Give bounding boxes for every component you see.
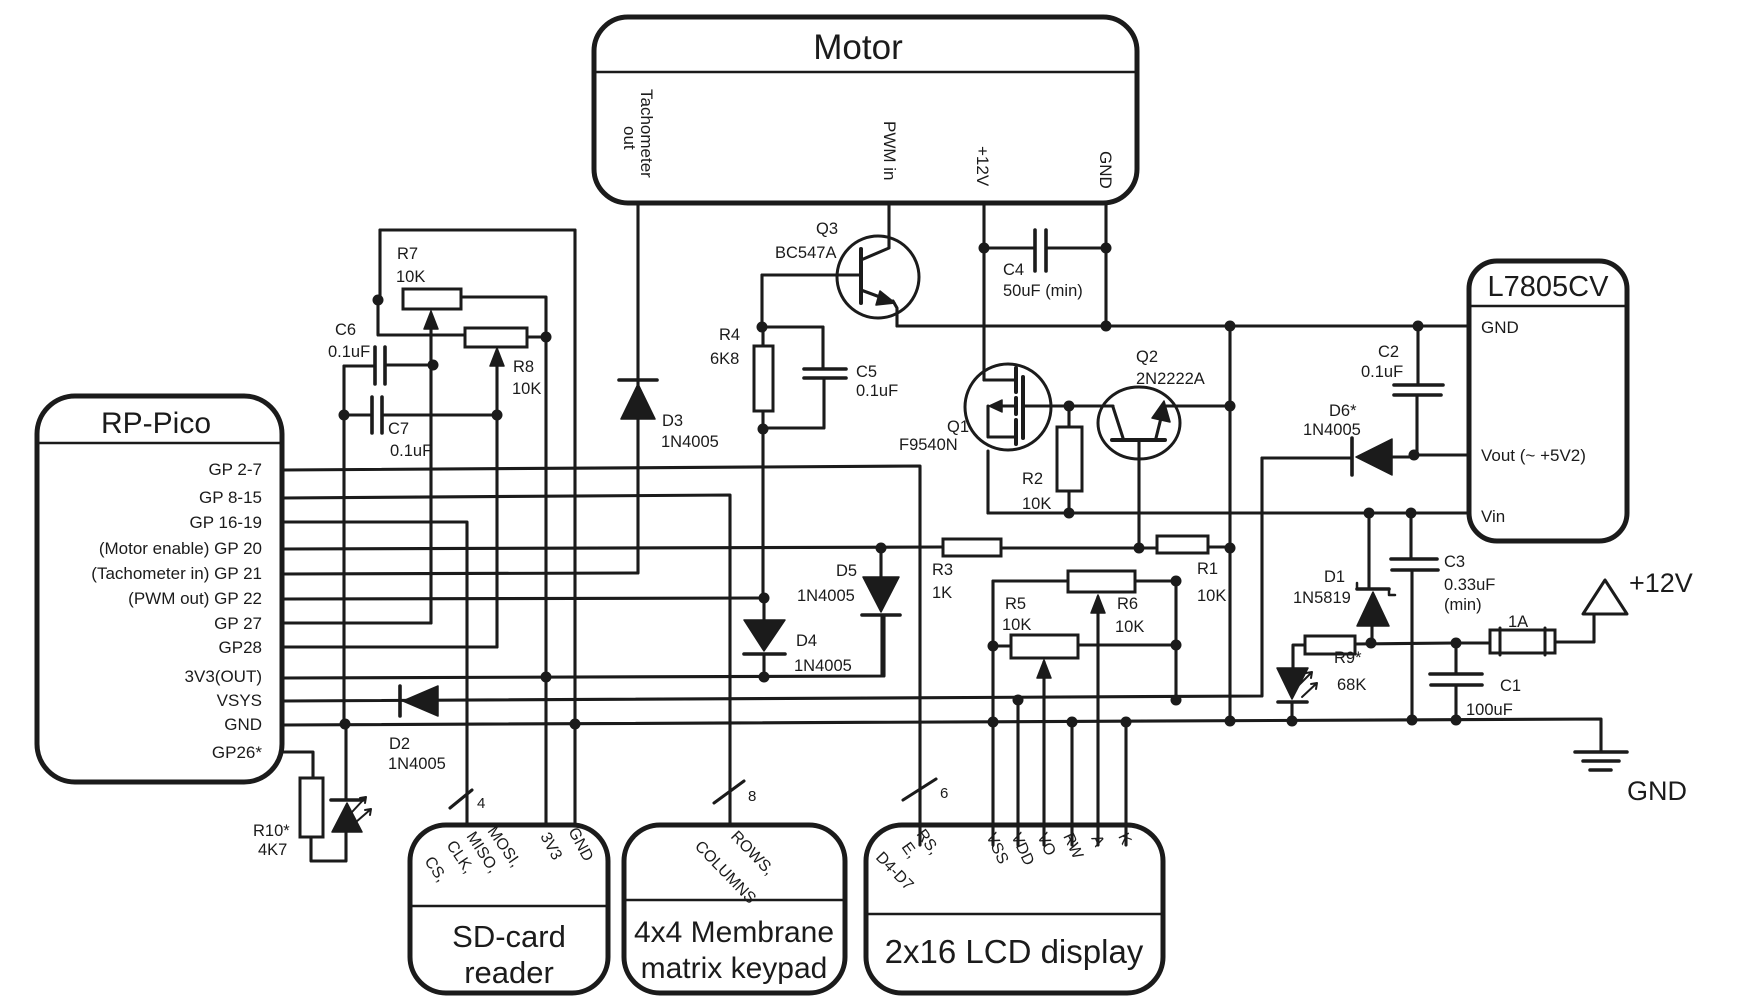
wire Q1 gate to Q2 base <box>1024 404 1113 407</box>
junction D1 / Vin row <box>1364 508 1375 519</box>
svg-text:68K: 68K <box>1337 676 1366 694</box>
junction ground bus / C2 <box>1413 321 1424 332</box>
svg-text:1K: 1K <box>932 584 952 602</box>
svg-text:SD-card: SD-card <box>452 919 566 954</box>
svg-text:C5: C5 <box>856 363 877 381</box>
wire fuse to +12V symbol <box>1555 614 1594 642</box>
R6 wiper arrow <box>1091 595 1105 613</box>
svg-text:D2: D2 <box>389 735 410 753</box>
junction Q1 gate / R2 / Q2 base <box>1064 401 1075 412</box>
wire C2 bottom lead to Vout node <box>1415 396 1418 455</box>
svg-text:C6: C6 <box>335 321 356 339</box>
svg-text:C1: C1 <box>1500 677 1521 695</box>
junction 3V3 row / SD 3V3 <box>541 672 552 683</box>
wire LCD K vertical to GND row <box>1124 722 1127 845</box>
wire R5/R6 left vertical to LCD VSS <box>991 581 994 845</box>
svg-text:10K: 10K <box>396 268 425 286</box>
junction C7 left <box>339 410 350 421</box>
svg-text:GP26*: GP26* <box>212 743 262 762</box>
junction ground bus / motor GND <box>1101 321 1112 332</box>
junction GND row / LCD RW <box>1067 717 1078 728</box>
svg-text:50uF (min): 50uF (min) <box>1003 282 1083 300</box>
resistor R5 10K (pot) <box>1011 635 1078 658</box>
svg-text:6K8: 6K8 <box>710 350 739 368</box>
wire R2 bottom lead <box>1067 491 1070 513</box>
wire GND row <box>282 719 1601 751</box>
junction R7 left <box>373 295 384 306</box>
wire Motor GND pin down to ground bus <box>1104 203 1107 326</box>
svg-text:D4: D4 <box>796 632 817 650</box>
wire LCD VDD vertical to VSYS <box>1016 700 1019 845</box>
svg-text:GP 2-7: GP 2-7 <box>208 460 262 479</box>
junction Q2 emitter / ground rail <box>1225 401 1236 412</box>
wire top rail left drop to R7 <box>378 230 381 300</box>
junction D4 / 3V3 row <box>759 672 770 683</box>
wire C7 right to R8 wiper <box>383 413 497 416</box>
resistor R2 10K <box>1057 427 1082 491</box>
svg-text:1N4005: 1N4005 <box>797 587 855 605</box>
wire VSYS row to D6 <box>282 458 1262 701</box>
svg-text:4x4 Membrane: 4x4 Membrane <box>634 916 834 949</box>
svg-text:6: 6 <box>940 785 948 802</box>
junction D5 / GP20 row <box>876 543 887 554</box>
wire GP 16-19 bus to SD reader <box>282 522 467 825</box>
wire R4 bottom vertical to GP22 row <box>761 411 764 598</box>
junction GND row / C3 <box>1407 715 1418 726</box>
resistor R6 10K (pot) <box>1068 571 1135 592</box>
wire Vout node to L7805 <box>1414 453 1469 456</box>
svg-text:10K: 10K <box>1115 618 1144 636</box>
wire Motor +12V pin to Q1 source <box>982 203 985 380</box>
capacitor C1 100uF <box>1430 672 1482 676</box>
RP-Pico box <box>37 396 282 782</box>
svg-text:1N5819: 1N5819 <box>1293 589 1351 607</box>
wire C4 right lead <box>1046 246 1106 249</box>
diode D3 1N4005 <box>619 378 657 382</box>
wire R7 wiper vertical to GP27 <box>429 328 432 623</box>
junction C1 top / fuse row <box>1451 638 1462 649</box>
wire C1 top lead <box>1454 643 1457 674</box>
wire Q3 base drop to R4/C5 top <box>762 275 823 327</box>
junction R1 right / ground rail <box>1225 543 1236 554</box>
wire GP 21 tachometer row up to Motor <box>282 203 638 574</box>
wire power LED cathode to GND row <box>1290 703 1293 722</box>
svg-text:GP 16-19: GP 16-19 <box>190 513 262 532</box>
wire GP 22 PWM row to R4/D4 node <box>282 598 764 599</box>
svg-text:Q2: Q2 <box>1136 348 1158 366</box>
svg-text:RP-Pico: RP-Pico <box>101 407 211 440</box>
svg-text:10K: 10K <box>1002 616 1031 634</box>
wire GP 8-15 bus to keypad <box>282 495 730 825</box>
svg-text:0.1uF: 0.1uF <box>1361 363 1403 381</box>
junction GND row / C6C7 / LED <box>340 719 351 730</box>
diode D5 1N4005 <box>863 577 899 612</box>
resistor R9* 68K <box>1305 636 1355 654</box>
wire C3 top lead from Vin row <box>1409 513 1412 559</box>
svg-text:R8: R8 <box>513 358 534 376</box>
svg-text:1N4005: 1N4005 <box>661 433 719 451</box>
wire D5 bottom lead to 3V3 row <box>880 616 883 676</box>
slash bus 4 SD <box>450 790 472 808</box>
wire C6/C7 ground vertical x=344 <box>342 366 345 724</box>
svg-text:100uF: 100uF <box>1466 701 1513 719</box>
svg-text:+12V: +12V <box>1629 568 1693 598</box>
wire Q2 emitter to ground rail <box>1166 404 1230 407</box>
transistor Q2 2N2222A <box>1098 387 1180 459</box>
diode D4 1N4005 <box>744 620 785 651</box>
svg-text:R6: R6 <box>1117 595 1138 613</box>
junction GND row / power LED <box>1287 716 1298 727</box>
svg-text:GND: GND <box>1627 776 1687 806</box>
svg-text:L7805CV: L7805CV <box>1488 271 1610 303</box>
LED power indicator <box>1277 668 1308 699</box>
wire R2 top lead <box>1067 406 1070 427</box>
wire R8 wiper vertical to GP28 <box>495 366 498 647</box>
svg-text:(min): (min) <box>1444 596 1482 614</box>
wire R6 wiper vertical to LCD A <box>1096 597 1099 845</box>
wire D6 right to Vout node <box>1392 455 1414 458</box>
wire C2 top lead from ground bus <box>1416 326 1419 384</box>
svg-text:R1: R1 <box>1197 560 1218 578</box>
2x16 LCD display box <box>866 825 1163 993</box>
wire LCD RW vertical to GND row <box>1070 722 1073 845</box>
junction C4 left <box>979 243 990 254</box>
R8 wiper arrow <box>490 348 504 366</box>
wire ground bus Q3 emitter to L7805 GND <box>897 324 1469 327</box>
svg-text:GND: GND <box>1096 151 1115 189</box>
junction D4 / GP22 row <box>759 593 770 604</box>
wire Q1 drain down to Vin row <box>986 451 989 513</box>
resistor R1 10K <box>1157 536 1208 553</box>
svg-text:R7: R7 <box>397 245 418 263</box>
svg-text:out: out <box>620 126 639 150</box>
svg-text:Vout (~ +5V2): Vout (~ +5V2) <box>1481 446 1586 465</box>
svg-text:0.33uF: 0.33uF <box>1444 576 1495 594</box>
resistor R7 10K (pot) <box>403 289 461 309</box>
wire R7 right to 3V3 vertical <box>461 297 546 337</box>
wire GP 27 to R7 wiper <box>282 621 431 624</box>
wire C5 bottom lead <box>764 379 824 428</box>
diode D6* 1N4005 <box>1350 438 1354 475</box>
wire top rail R7-left to GND vertical <box>380 228 575 231</box>
svg-text:1N4005: 1N4005 <box>1303 421 1361 439</box>
wire R10 bottom to LED anode <box>311 833 346 861</box>
svg-text:(PWM out) GP 22: (PWM out) GP 22 <box>128 589 262 608</box>
junction Q3 base node <box>757 322 768 333</box>
capacitor C7 0.1uF <box>370 397 374 433</box>
wire Q3 base node <box>762 273 861 276</box>
svg-text:0.1uF: 0.1uF <box>328 343 370 361</box>
svg-text:(Tachometer in) GP 21: (Tachometer in) GP 21 <box>91 564 262 583</box>
wire R6 right lead <box>1135 579 1176 582</box>
SD-card reader box <box>410 825 608 993</box>
wire GP26* to R10 <box>284 752 313 778</box>
wire C4 left lead <box>984 246 1035 249</box>
fuse 1A <box>1490 630 1555 653</box>
wire R8 right <box>527 335 546 338</box>
svg-text:F9540N: F9540N <box>899 436 958 454</box>
svg-text:(Motor enable) GP 20: (Motor enable) GP 20 <box>99 539 262 558</box>
R5 wiper arrow <box>1037 660 1051 678</box>
capacitor C5 0.1uF <box>804 367 846 371</box>
junction GND row / C1 <box>1451 715 1462 726</box>
svg-text:C2: C2 <box>1378 343 1399 361</box>
wire Q2 collector down to R3/R1 node <box>1137 442 1140 548</box>
svg-text:D3: D3 <box>662 412 683 430</box>
capacitor C6 0.1uF <box>373 347 377 384</box>
svg-text:2x16 LCD display: 2x16 LCD display <box>885 933 1144 970</box>
svg-text:PWM in: PWM in <box>880 121 899 181</box>
svg-text:10K: 10K <box>1197 587 1226 605</box>
wire R6 left lead <box>993 579 1068 582</box>
wire C1 bottom lead <box>1454 686 1457 721</box>
svg-text:C7: C7 <box>388 420 409 438</box>
wire GP 28 to R8 wiper <box>282 645 497 648</box>
wire D6 left from VSYS riser <box>1262 456 1352 459</box>
svg-text:D5: D5 <box>836 562 857 580</box>
svg-text:R9*: R9* <box>1334 649 1362 667</box>
wire R4 top <box>761 327 764 346</box>
svg-text:VSYS: VSYS <box>217 691 262 710</box>
svg-text:2N2222A: 2N2222A <box>1136 370 1205 388</box>
svg-text:reader: reader <box>464 955 554 990</box>
wire C7 left <box>344 413 372 416</box>
svg-text:Motor: Motor <box>813 28 903 67</box>
resistor R4 6K8 <box>754 346 773 411</box>
svg-text:R2: R2 <box>1022 470 1043 488</box>
svg-text:+12V: +12V <box>973 146 992 187</box>
wire D4 top lead from GP22 row <box>762 598 765 620</box>
junction GND row / LCD VSS <box>988 717 999 728</box>
wire C5 top lead <box>821 327 824 369</box>
svg-text:4: 4 <box>477 795 485 812</box>
resistor R3 1K <box>943 539 1001 556</box>
wire D4 bottom lead to 3V3 row <box>762 654 765 677</box>
svg-text:1N4005: 1N4005 <box>388 755 446 773</box>
transistor Q3 BC547A <box>837 236 919 318</box>
svg-text:Q3: Q3 <box>816 220 838 238</box>
wire measure LED cathode to GND row <box>344 724 347 800</box>
junction R5 right <box>1171 640 1182 651</box>
junction Vout node <box>1409 450 1420 461</box>
svg-text:matrix keypad: matrix keypad <box>641 952 828 985</box>
junction GND row / rail x575 <box>570 719 581 730</box>
svg-text:GP 8-15: GP 8-15 <box>199 488 262 507</box>
resistor R10* 4K7 <box>300 778 323 837</box>
wire R5 wiper vertical to LCD VO <box>1042 662 1045 845</box>
+12V power symbol <box>1583 580 1627 614</box>
junction C7 to R8 wiper <box>492 410 503 421</box>
wire GP 2-7 bus to LCD <box>282 466 920 845</box>
wire R5 left lead <box>993 644 1011 647</box>
junction GND row / ground rail <box>1225 716 1236 727</box>
junction C6 to R7 wiper <box>428 360 439 371</box>
svg-text:4K7: 4K7 <box>258 841 287 859</box>
capacitor C2 0.1uF <box>1394 383 1443 387</box>
R7 wiper arrow <box>424 311 438 329</box>
wire D1 bottom lead <box>1370 626 1373 643</box>
wire D5 top lead from GP20 row <box>879 548 882 577</box>
junction GND row / LCD K <box>1121 717 1132 728</box>
svg-text:GP28: GP28 <box>219 638 262 657</box>
junction D1 bottom / fuse row <box>1366 638 1377 649</box>
svg-text:3V3(OUT): 3V3(OUT) <box>185 667 262 686</box>
svg-text:1A: 1A <box>1508 613 1528 631</box>
wire ground rail x=1230 <box>1228 326 1231 722</box>
svg-text:R4: R4 <box>719 326 740 344</box>
svg-text:R10*: R10* <box>253 822 290 840</box>
capacitor C3 0.33uF <box>1391 557 1437 561</box>
wire 3V3 vertical x=546 down to SD 3V3 pin <box>544 337 547 825</box>
svg-text:R5: R5 <box>1005 595 1026 613</box>
svg-text:10K: 10K <box>1022 495 1051 513</box>
svg-text:GND: GND <box>224 715 262 734</box>
wire R9 left lead to LED <box>1293 645 1305 668</box>
wire Vin row to L7805 <box>988 511 1469 514</box>
diode D2 1N4005 <box>398 686 402 716</box>
wire R5/R6 right vertical to VSYS <box>1174 581 1177 700</box>
svg-text:GND: GND <box>1481 318 1519 337</box>
junction R8 right <box>541 332 552 343</box>
LED measure (GP26) <box>331 798 363 802</box>
svg-text:GP 27: GP 27 <box>214 614 262 633</box>
junction R5R6 vertical / VSYS row <box>1171 695 1182 706</box>
junction C3 / Vin row <box>1406 508 1417 519</box>
svg-text:BC547A: BC547A <box>775 244 836 262</box>
4x4 Membrane matrix keypad box <box>624 825 845 993</box>
ground symbol <box>1575 750 1627 754</box>
junction R5 left <box>988 641 999 652</box>
junction R3-R1 / Q2 collector <box>1134 543 1145 554</box>
wire C6 left <box>344 364 375 367</box>
wire GND vertical x=575 down to SD GND pin <box>573 230 576 825</box>
junction R2 bottom / Vin row <box>1064 508 1075 519</box>
wire R5 right lead <box>1078 643 1176 646</box>
wire D1 top lead from Vin row <box>1367 513 1370 587</box>
wire R3 to R1 segment <box>1001 546 1157 549</box>
wire 3V3(OUT) row to D5 <box>282 616 884 678</box>
svg-text:D6*: D6* <box>1329 402 1357 420</box>
svg-text:0.1uF: 0.1uF <box>390 442 432 460</box>
wire R1 right <box>1208 545 1230 548</box>
capacitor C4 50uF <box>1033 230 1037 271</box>
svg-text:0.1uF: 0.1uF <box>856 382 898 400</box>
junction R6 right <box>1171 576 1182 587</box>
svg-text:R3: R3 <box>932 561 953 579</box>
junction LCD VDD / VSYS row <box>1013 695 1024 706</box>
wire C3 bottom lead to GND row <box>1410 570 1413 722</box>
slash bus 6 LCD <box>903 779 936 800</box>
L7805CV box <box>1469 261 1627 541</box>
wire C6 right to R7 wiper <box>386 363 433 366</box>
transistor Q1 F9540N (P-MOSFET) <box>965 364 1051 450</box>
svg-text:1N4005: 1N4005 <box>794 657 852 675</box>
junction C4 right <box>1101 243 1112 254</box>
svg-text:Q1: Q1 <box>947 418 969 436</box>
diode D1 1N5819 (schottky) <box>1357 587 1389 591</box>
svg-text:Vin: Vin <box>1481 507 1505 526</box>
junction ground bus / ground rail <box>1225 321 1236 332</box>
svg-text:C3: C3 <box>1444 553 1465 571</box>
wire R7 left to R8 left <box>378 300 465 335</box>
svg-text:8: 8 <box>748 788 756 805</box>
svg-text:10K: 10K <box>512 380 541 398</box>
resistor R8 10K (pot) <box>465 328 527 347</box>
svg-text:D1: D1 <box>1324 568 1345 586</box>
wire GP 20 motor enable row to R3 <box>282 547 943 549</box>
junction R4/C5 bottom <box>758 424 769 435</box>
svg-text:C4: C4 <box>1003 261 1024 279</box>
slash bus 8 keypad <box>714 781 744 803</box>
wire Motor PWM pin to Q3 collector <box>887 203 890 247</box>
wire fuse row R9 to fuse <box>1355 643 1490 644</box>
Motor box <box>594 17 1137 203</box>
